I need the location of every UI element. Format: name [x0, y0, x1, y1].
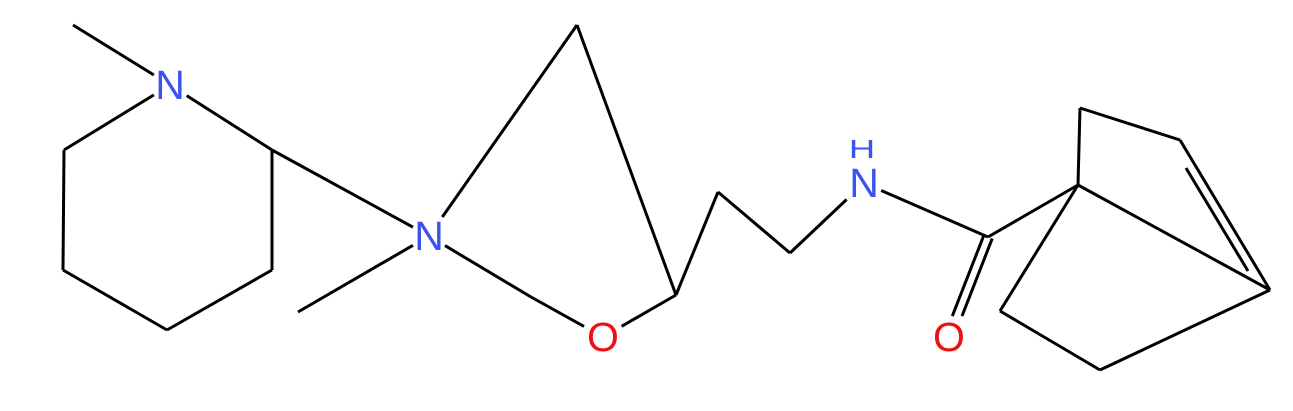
bond C13-C16 bridge — [1078, 185, 1270, 290]
bond C4-C5 — [167, 270, 272, 330]
bond N2-C7 — [445, 246, 531, 297]
bond C16-C17 — [1100, 290, 1270, 370]
bond C7-O1 — [531, 297, 584, 326]
bond C18-C13 — [1000, 185, 1078, 311]
svg-text:H: H — [849, 134, 875, 164]
bond N2-CH3 — [298, 245, 413, 312]
bond N1-C2 — [64, 95, 154, 150]
bond C6-N2 — [272, 150, 413, 227]
bond CH3-N1 — [73, 25, 154, 75]
bond C8-C9 (bridge down-right leg) — [577, 25, 676, 295]
bond N2-C8 (bridge up-left leg) — [442, 25, 577, 217]
bond C2-C3 — [63, 150, 64, 270]
svg-text:N: N — [155, 62, 185, 108]
bond C15-C16 — [1180, 140, 1270, 290]
bond C11-N3 — [790, 200, 847, 254]
bond C3-C4 — [63, 270, 167, 330]
bond C15=C16 double inner line — [1186, 168, 1248, 271]
bond C6-N1 — [187, 96, 272, 150]
bond O1-C9 — [622, 295, 676, 326]
svg-text:O: O — [587, 314, 619, 360]
svg-text:N: N — [849, 160, 879, 206]
bond C13-C14 — [1078, 108, 1080, 185]
bond C10-C11 — [718, 192, 790, 253]
svg-text:O: O — [933, 314, 965, 360]
bond C14-C15 — [1080, 108, 1180, 140]
bond C12=O2 double line — [962, 239, 992, 317]
bond C17-C18 — [1000, 311, 1100, 370]
bond C9-C10 — [676, 192, 718, 295]
bond C12=O2 double line — [952, 235, 984, 316]
bond N3-C12 carbonyl — [881, 191, 988, 238]
bond C12-C13 — [988, 185, 1078, 237]
svg-text:N: N — [414, 213, 444, 259]
bond C5-C6 — [271, 150, 274, 270]
